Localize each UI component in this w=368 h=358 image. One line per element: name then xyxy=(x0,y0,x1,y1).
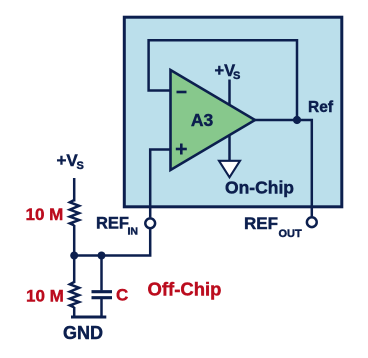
wire non-inverting input to REF_IN xyxy=(150,150,171,218)
wire +VS to op-amp xyxy=(228,80,231,105)
svg-text:S: S xyxy=(77,160,84,172)
terminal REF_OUT xyxy=(307,217,317,227)
pin - (inverting input marker) xyxy=(177,91,187,94)
svg-text:IN: IN xyxy=(128,226,139,238)
svg-text:10 M: 10 M xyxy=(26,205,64,224)
node A junction dot xyxy=(70,252,78,260)
wire feedback loop from inverting input to output node xyxy=(149,40,297,122)
svg-text:REF: REF xyxy=(96,215,129,233)
wire R2 to ground xyxy=(73,307,76,317)
svg-text:Ref: Ref xyxy=(308,99,334,116)
wire node B to capacitor xyxy=(100,256,103,291)
terminal REF_IN xyxy=(145,218,155,228)
wire R1 to node A xyxy=(73,225,76,256)
svg-text:GND: GND xyxy=(63,323,103,343)
ground (on-chip down arrow) xyxy=(219,161,240,178)
svg-text:Off-Chip: Off-Chip xyxy=(148,279,222,300)
ground bar xyxy=(71,316,106,319)
wire capacitor to ground xyxy=(100,299,103,317)
wire op-amp output to REF_OUT xyxy=(255,120,312,216)
pin + (non-inverting input marker) xyxy=(176,148,187,151)
on-chip box xyxy=(124,17,341,207)
node B junction dot xyxy=(98,252,106,260)
svg-text:On-Chip: On-Chip xyxy=(225,178,294,198)
wire +VS to R1 xyxy=(73,178,76,202)
svg-text:REF: REF xyxy=(244,214,278,233)
node Ref junction xyxy=(293,116,301,124)
svg-text:OUT: OUT xyxy=(279,228,303,240)
svg-text:S: S xyxy=(233,70,240,82)
op-amp A3 xyxy=(171,70,256,170)
svg-text:A3: A3 xyxy=(191,110,214,130)
wire node A to R2 xyxy=(73,256,76,284)
wire REF_IN down to divider node xyxy=(74,229,150,255)
svg-text:+V: +V xyxy=(57,151,79,170)
capacitor C xyxy=(92,290,113,293)
svg-text:10 M: 10 M xyxy=(26,287,64,306)
wire op-amp to ground arrow xyxy=(228,135,231,162)
svg-text:C: C xyxy=(116,286,128,305)
resistor R2 10 M xyxy=(70,282,79,307)
resistor R1 10 M xyxy=(70,200,79,225)
